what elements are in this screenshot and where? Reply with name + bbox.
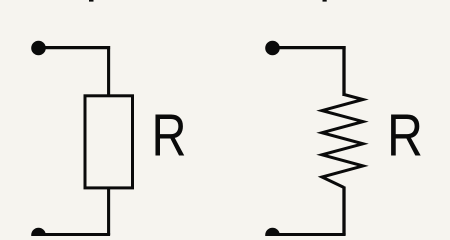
wire: right circuit bottom vertical from resistor	[342, 187, 345, 236]
svg-text:R: R	[152, 102, 187, 168]
svg-text:R: R	[387, 102, 423, 168]
resistor R (IEC box symbol)	[85, 96, 133, 188]
wire: right circuit bottom horizontal	[273, 233, 346, 236]
wire: left circuit bottom vertical from resistor	[107, 188, 110, 235]
wire: left circuit top horizontal	[39, 46, 111, 49]
node: top terminal of left circuit	[31, 41, 46, 56]
wire: left circuit bottom horizontal	[39, 233, 111, 236]
wire: left circuit top vertical drop to resistor	[107, 46, 110, 96]
wire: right circuit top horizontal	[273, 46, 346, 49]
wire: right circuit top vertical drop to resistor	[342, 46, 345, 96]
cropped text descender mark (top, right circuit)	[323, 0, 327, 2]
node: bottom terminal of left circuit	[31, 228, 46, 240]
node: top terminal of right circuit	[265, 41, 280, 56]
node: bottom terminal of right circuit	[265, 228, 280, 240]
resistor R (ANSI zigzag symbol)	[322, 95, 363, 188]
cropped text descender mark (top, left circuit)	[89, 0, 94, 2]
